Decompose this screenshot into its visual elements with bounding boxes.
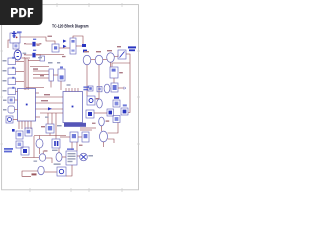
aux box U8 <box>88 86 93 91</box>
left io column box P1 <box>8 57 16 65</box>
label right of B1 <box>57 125 62 126</box>
wire U4 to G1 <box>76 45 82 47</box>
mic symbol J1 <box>12 31 18 38</box>
label LOW POWER <box>4 148 13 152</box>
meter box M2 <box>57 167 66 176</box>
label MIC <box>17 31 22 33</box>
label above U13 <box>67 148 74 150</box>
label Line OUT <box>128 46 136 51</box>
bus wires <box>24 57 28 90</box>
battery box BT1 <box>52 139 60 148</box>
wire U3 to driver <box>59 47 70 49</box>
frame zone ticks <box>1 3 141 192</box>
mixer box U3 <box>52 44 59 52</box>
tube drop wires <box>87 62 111 99</box>
low-voltage tap wires <box>22 171 38 176</box>
tube V11 <box>38 166 44 174</box>
tube V8 <box>100 131 108 142</box>
blue tick <box>12 129 15 132</box>
wire U7 down <box>113 78 115 83</box>
bridge bottom box CR4 <box>113 116 120 123</box>
jack wires <box>13 100 18 120</box>
switch box SW1 <box>40 56 45 61</box>
io wires <box>16 61 25 91</box>
tube V10 <box>39 154 45 162</box>
jack box P6 <box>8 106 15 113</box>
tube row wires <box>91 55 118 60</box>
bus stub wires <box>26 61 49 88</box>
diode D1 <box>32 39 36 47</box>
tube V12 <box>56 149 62 162</box>
U11 bottom pins <box>19 121 31 129</box>
switch box S2 <box>25 128 32 136</box>
label right of U10 <box>96 98 100 99</box>
big block U11 (left PCB) <box>18 89 36 122</box>
wire V10 right <box>46 158 52 163</box>
diode D2 <box>32 50 36 58</box>
wire V7 to V8 <box>101 126 103 131</box>
input box U1 <box>10 33 20 43</box>
wire V1-A plate <box>21 57 30 59</box>
rectifier bridge: top box CR1 <box>113 97 120 107</box>
tube V4 <box>107 53 115 63</box>
pin strip under U12 <box>64 123 86 127</box>
sheet frame <box>2 5 139 190</box>
horizontal rail <box>34 133 66 136</box>
wire K1 to ground <box>118 87 124 89</box>
left io column box P4 <box>8 87 16 95</box>
fan box B1 <box>46 124 54 133</box>
tube V6 <box>97 99 103 108</box>
switch box S1 <box>16 131 23 139</box>
label B+ <box>119 72 123 73</box>
U11 right stubs <box>36 93 41 117</box>
input box U2 <box>13 43 19 49</box>
tube V9 <box>36 139 43 148</box>
regulator box U7 <box>110 67 118 78</box>
wires D1 <box>26 43 41 45</box>
arrow glyph <box>48 107 52 110</box>
interconnect wires U11-U12 <box>36 97 64 113</box>
bridge right box CR3 <box>121 104 128 115</box>
wires V8 right <box>104 123 119 148</box>
filter box U10 <box>87 96 95 105</box>
relay box K1 <box>111 83 118 92</box>
wire top feedback <box>73 36 83 44</box>
output transformer T1 <box>118 50 126 59</box>
jack box P5 <box>8 97 15 103</box>
relay box K2 <box>70 132 78 142</box>
net labels <box>38 57 42 58</box>
left io column box P2 <box>8 67 16 75</box>
arrows A1 <box>63 40 67 49</box>
label right of V7 <box>106 120 110 121</box>
glyph pair G1 <box>82 44 87 52</box>
wire V11 right <box>44 171 57 173</box>
wire into bridge <box>94 112 107 114</box>
speaker SP1 <box>80 153 88 161</box>
label left of B1 <box>41 126 45 127</box>
wires K2 K3 <box>60 128 96 151</box>
wire input to grid <box>20 37 55 44</box>
ground <box>124 87 125 90</box>
wires V9 <box>40 136 44 155</box>
wires lower-left <box>22 136 39 158</box>
wire stub left of U1 <box>8 40 10 48</box>
label right of SP1 <box>88 155 93 157</box>
tube V2 <box>83 55 91 65</box>
tube labels V1-B V2-B V3-B V4-B <box>84 51 89 52</box>
cap box C1 <box>86 110 94 118</box>
preamp tall box U5 <box>49 69 53 81</box>
driver box U4 <box>70 38 76 54</box>
label LOW <box>32 173 37 175</box>
wires D2 <box>26 54 41 56</box>
switch box S3 <box>16 141 23 148</box>
labels top-right of U12 <box>83 86 89 90</box>
bridge left box CR2 <box>107 109 114 116</box>
wire U5-U6 <box>53 74 58 76</box>
PDF badge <box>0 0 43 25</box>
big block U12 (right PCB) <box>63 92 83 123</box>
label below BT1 <box>52 150 58 151</box>
cap box C2 <box>21 147 29 155</box>
wire U3 bottom rail <box>36 54 64 56</box>
label below V12 <box>54 163 61 165</box>
output block U13 <box>66 151 77 165</box>
tube V1-A <box>14 50 21 60</box>
misc net labels <box>24 36 96 152</box>
tube V3 <box>95 55 103 65</box>
verticals into B1 <box>48 113 56 139</box>
tube V7 <box>99 117 105 126</box>
label right of V1-A <box>23 53 27 55</box>
motor M1 <box>6 116 13 123</box>
net label A GND <box>44 94 50 95</box>
label D1 pads <box>24 43 26 44</box>
io labels <box>3 60 7 111</box>
aux box U9 <box>97 86 102 91</box>
tube V5 <box>104 84 110 93</box>
wire M2 drop <box>66 165 72 176</box>
wires U13 <box>62 156 80 157</box>
preamp box U6 <box>58 66 65 81</box>
wire T1 output loop <box>112 54 130 113</box>
net label OUT <box>41 100 48 101</box>
relay box K3 <box>82 132 89 142</box>
left io column box P3 <box>8 77 16 85</box>
wires U5/U6 down <box>51 81 61 90</box>
U12 top pins <box>66 88 78 92</box>
PDF badge text (vector letters) <box>11 8 33 17</box>
svg-text:TC-120 Block Diagram: TC-120 Block Diagram <box>52 24 89 29</box>
